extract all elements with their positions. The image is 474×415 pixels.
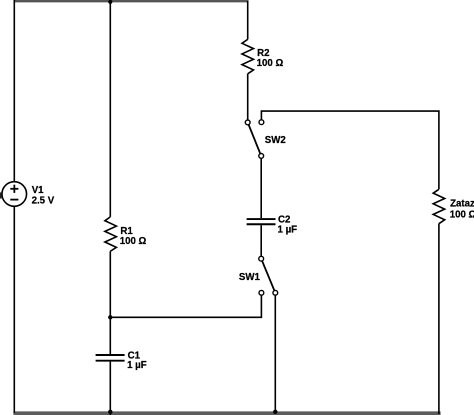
svg-text:SW2: SW2 bbox=[265, 135, 286, 146]
svg-text:SW1: SW1 bbox=[239, 272, 261, 283]
svg-text:100 Ω: 100 Ω bbox=[450, 210, 474, 221]
svg-text:100 Ω: 100 Ω bbox=[120, 236, 147, 247]
svg-text:Zatazenie: Zatazenie bbox=[450, 199, 474, 210]
svg-text:100 Ω: 100 Ω bbox=[257, 58, 284, 69]
svg-text:2.5 V: 2.5 V bbox=[32, 195, 55, 206]
svg-text:R1: R1 bbox=[120, 226, 133, 237]
svg-text:1 µF: 1 µF bbox=[127, 360, 147, 371]
svg-text:1 µF: 1 µF bbox=[278, 224, 298, 235]
